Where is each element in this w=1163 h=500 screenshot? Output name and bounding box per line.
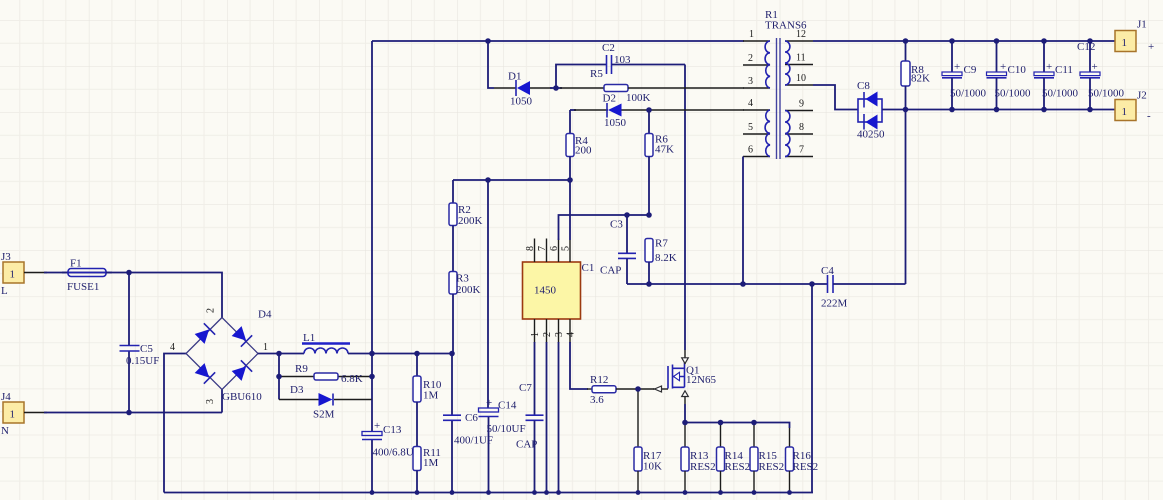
wire C4 node drop to rail	[811, 284, 813, 493]
svg-text:12N65: 12N65	[686, 374, 716, 386]
svg-text:1: 1	[1122, 106, 1128, 118]
diode D3 S2M	[279, 384, 372, 421]
wire bridge right to node	[258, 353, 304, 355]
svg-text:3.6: 3.6	[590, 394, 604, 406]
svg-text:L1: L1	[303, 332, 315, 344]
svg-text:400/1UF: 400/1UF	[454, 435, 493, 447]
svg-text:1: 1	[749, 29, 754, 40]
svg-text:+: +	[486, 397, 492, 409]
resistor R4 200	[566, 110, 592, 180]
capacitor C9	[942, 41, 987, 110]
svg-text:10K: 10K	[643, 461, 662, 473]
svg-text:8: 8	[525, 246, 536, 251]
svg-text:R5: R5	[590, 68, 603, 80]
capacitor C6	[443, 354, 493, 493]
svg-text:C11: C11	[1055, 64, 1073, 76]
wire R4 to IC pin5	[569, 180, 571, 240]
wire D1 riser	[488, 41, 494, 88]
svg-text:1450: 1450	[534, 285, 557, 297]
diac C8 40250	[857, 80, 906, 141]
svg-text:S2M: S2M	[313, 409, 335, 421]
wire bridge bottom drop	[221, 390, 223, 413]
wire pin10 to C8	[813, 85, 858, 110]
wire pin6 to y284 row	[742, 157, 744, 285]
svg-text:11: 11	[796, 53, 806, 64]
wire divider row y180	[453, 179, 570, 181]
wire J4 to bridge bottom	[24, 412, 47, 414]
svg-text:D4: D4	[258, 309, 272, 321]
resistor R13 RES2	[681, 447, 716, 493]
svg-text:10: 10	[796, 73, 806, 84]
wire C14 drop	[487, 180, 489, 408]
svg-text:+: +	[1148, 41, 1154, 53]
capacitor C11	[1034, 41, 1079, 110]
wire R2 to R3	[452, 226, 454, 272]
resistor R15 RES2	[750, 423, 784, 493]
svg-text:C6: C6	[465, 412, 478, 424]
top rail left	[372, 40, 744, 42]
capacitor C10	[987, 41, 1032, 110]
svg-text:8.2K: 8.2K	[655, 252, 677, 264]
capacitor C12	[1077, 41, 1125, 110]
capacitor C5	[120, 273, 160, 413]
junction dots y284 row	[646, 281, 815, 287]
resistor R16 RES2	[786, 447, 819, 493]
svg-text:+: +	[1092, 61, 1098, 73]
svg-text:1: 1	[10, 409, 16, 421]
capacitor C2 103	[602, 42, 685, 74]
svg-text:+: +	[1046, 61, 1052, 73]
svg-text:C2: C2	[602, 42, 615, 54]
resistor R12 3.6	[587, 374, 654, 406]
inductor L1	[302, 332, 350, 354]
junction dots gate and source rows	[635, 386, 757, 425]
svg-text:C4: C4	[821, 265, 834, 277]
svg-text:200K: 200K	[458, 215, 483, 227]
svg-text:FUSE1: FUSE1	[67, 281, 99, 293]
wire IC pin2 to rail	[546, 342, 548, 493]
svg-text:C9: C9	[964, 64, 977, 76]
wire R10 to R11	[416, 402, 418, 447]
capacitor C7 CAP	[516, 382, 544, 493]
svg-text:222M: 222M	[821, 298, 848, 310]
svg-text:200K: 200K	[456, 284, 481, 296]
svg-text:1: 1	[530, 332, 541, 337]
junction dots main node row	[276, 351, 455, 380]
transistor Q1 12N65	[653, 358, 716, 397]
svg-text:12: 12	[796, 29, 806, 40]
svg-text:R7: R7	[655, 238, 668, 250]
ground rail	[164, 492, 813, 494]
svg-text:6: 6	[748, 145, 753, 156]
wire y284 row	[627, 283, 827, 285]
top rail right	[813, 40, 1115, 42]
diode D1 1050	[508, 71, 556, 108]
wire Q1 source down	[684, 397, 686, 405]
resistor R10	[413, 354, 442, 403]
svg-text:5: 5	[748, 122, 753, 133]
junction dots ground rail	[370, 490, 792, 495]
svg-text:2: 2	[748, 53, 753, 64]
junction dots top rail	[485, 38, 1093, 44]
wire IC pin3 to rail	[558, 342, 560, 493]
svg-text:-: -	[1147, 110, 1151, 122]
svg-text:1: 1	[1122, 37, 1128, 49]
svg-text:7: 7	[537, 246, 548, 251]
wire IC pin4 to R12	[570, 342, 588, 389]
junction dots snubber	[485, 85, 652, 218]
output ground rail	[906, 109, 1116, 111]
svg-text:4: 4	[170, 342, 175, 353]
svg-text:3: 3	[205, 399, 216, 404]
fuse F1	[62, 258, 112, 294]
svg-text:R3: R3	[456, 273, 469, 285]
svg-text:6: 6	[549, 246, 560, 251]
svg-text:2: 2	[206, 308, 217, 313]
svg-text:C10: C10	[1008, 64, 1027, 76]
svg-text:D3: D3	[290, 384, 304, 396]
IC bottom pins 1 2 3 4	[530, 319, 577, 343]
node risers L1/R9/D3	[278, 354, 280, 400]
svg-text:1M: 1M	[423, 457, 439, 469]
wire source row to R14 R15 R16	[685, 423, 790, 429]
svg-text:9: 9	[799, 99, 804, 110]
svg-text:C1: C1	[582, 262, 595, 274]
svg-text:R12: R12	[590, 374, 608, 386]
svg-text:CAP: CAP	[516, 439, 537, 451]
transformer R1 TRANS6	[743, 9, 813, 159]
svg-text:1: 1	[263, 342, 268, 353]
svg-text:3: 3	[554, 332, 565, 337]
capacitor C3 CAP	[600, 215, 636, 284]
svg-text:J3: J3	[1, 251, 11, 263]
wire L1 right to C6 node	[348, 353, 452, 355]
svg-text:RES2: RES2	[725, 461, 751, 473]
svg-text:RES2: RES2	[759, 461, 785, 473]
svg-text:RES2: RES2	[690, 461, 716, 473]
diode D2 1050	[570, 93, 744, 130]
wire bridge left to ground rail	[164, 354, 186, 493]
svg-text:+: +	[374, 420, 380, 432]
svg-text:+: +	[1000, 61, 1006, 73]
svg-text:82K: 82K	[911, 73, 930, 85]
svg-text:47K: 47K	[655, 144, 674, 156]
svg-text:50/1000: 50/1000	[995, 88, 1032, 100]
svg-text:C3: C3	[610, 219, 623, 231]
svg-text:50/1000: 50/1000	[950, 88, 987, 100]
junction dots output ground	[903, 107, 1093, 113]
IC top pins 8 7 6 5	[525, 239, 572, 263]
IC C1 1450	[523, 262, 595, 319]
svg-text:5: 5	[561, 246, 572, 251]
resistor R7 8.2K	[645, 238, 677, 285]
svg-text:C8: C8	[857, 80, 870, 92]
wire J3 to F1	[24, 272, 47, 274]
resistor R17 10K	[634, 447, 662, 493]
svg-text:L: L	[1, 285, 8, 297]
svg-text:1M: 1M	[423, 390, 439, 402]
svg-text:1: 1	[10, 269, 16, 281]
capacitor C4 222M	[821, 265, 906, 310]
resistor R3 200K	[449, 272, 481, 297]
port J2	[1115, 90, 1151, 123]
svg-text:CAP: CAP	[600, 265, 621, 277]
svg-text:50/1000: 50/1000	[1042, 88, 1079, 100]
svg-text:103: 103	[614, 54, 631, 66]
svg-text:D1: D1	[508, 71, 521, 83]
bridge rectifier D4 GBU610	[170, 308, 272, 404]
svg-text:4: 4	[566, 332, 577, 337]
wire main node riser to top rail	[371, 41, 373, 354]
resistor R2 200K	[449, 180, 483, 227]
junction dots input	[126, 270, 132, 416]
capacitor C14	[479, 397, 526, 493]
resistor R5 100K	[556, 68, 744, 104]
resistor R14 RES2	[717, 423, 751, 493]
svg-text:100K: 100K	[626, 92, 651, 104]
svg-text:N: N	[1, 425, 9, 437]
svg-text:200: 200	[575, 145, 592, 157]
wire IC pin1 to C7	[534, 342, 536, 415]
svg-text:50/1000: 50/1000	[1088, 88, 1125, 100]
port J4	[1, 391, 24, 437]
svg-text:8: 8	[799, 122, 804, 133]
svg-text:0.15UF: 0.15UF	[126, 355, 159, 367]
resistor R9	[279, 363, 372, 385]
svg-text:C7: C7	[519, 382, 532, 394]
wire D1 node to C2	[556, 65, 607, 89]
resistor R8 82K	[901, 41, 930, 110]
port J1	[1115, 19, 1154, 54]
resistor R11	[413, 447, 441, 493]
svg-text:7: 7	[799, 145, 804, 156]
svg-text:50/10UF: 50/10UF	[487, 423, 526, 435]
wire C4 to output ground	[905, 110, 907, 284]
capacitor C13	[362, 400, 420, 493]
svg-text:C12: C12	[1077, 41, 1095, 53]
svg-text:J4: J4	[1, 391, 11, 403]
svg-text:+: +	[954, 61, 960, 73]
svg-text:R9: R9	[295, 363, 308, 375]
svg-text:C5: C5	[140, 343, 153, 355]
svg-text:2: 2	[542, 332, 553, 337]
svg-text:C14: C14	[498, 400, 517, 412]
svg-text:J2: J2	[1137, 90, 1147, 102]
wire C2 to Q1 drain	[684, 65, 686, 351]
resistor R6 47K	[645, 110, 674, 215]
svg-text:1050: 1050	[510, 96, 533, 108]
svg-text:6.8K: 6.8K	[341, 373, 363, 385]
svg-text:C13: C13	[383, 424, 402, 436]
svg-text:3: 3	[748, 76, 753, 87]
svg-text:1050: 1050	[604, 117, 627, 129]
svg-text:D2: D2	[603, 93, 616, 105]
svg-text:4: 4	[748, 98, 753, 109]
wire R17 branch	[637, 389, 639, 447]
port J3	[1, 251, 24, 297]
svg-text:RES2: RES2	[793, 461, 819, 473]
wire F1 to bridge top	[106, 273, 222, 318]
svg-text:F1: F1	[70, 258, 82, 270]
wire IC pin6 row y215	[559, 215, 650, 240]
svg-text:J1: J1	[1137, 19, 1147, 31]
wire R3 to node	[452, 294, 454, 354]
svg-text:GBU610: GBU610	[222, 391, 262, 403]
svg-text:40250: 40250	[857, 129, 885, 141]
